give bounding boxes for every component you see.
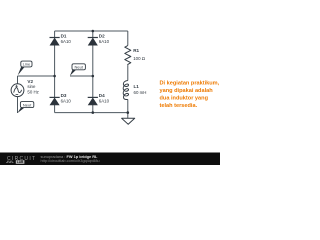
voltage source V2 [11,84,24,97]
wire V2 top lead [17,76,19,84]
node junction Neut x middle rail [92,75,95,78]
wire middle rail Neut junction to D4 cathode [92,76,94,97]
diode D4 [88,97,98,105]
wire left rail stub above D1 [54,31,56,37]
svg-text:6A10: 6A10 [99,39,110,44]
wire R1 to L1 [127,65,129,80]
net flag Line [18,61,32,75]
wire bottom rail [55,112,128,114]
wire L1 to bottom rail [127,100,129,113]
svg-text:Neut: Neut [74,65,83,70]
watermark bar [0,153,220,166]
wire middle rail D2 anode to Neut junction [92,45,94,76]
node junction bottom wire x D4 [92,111,95,114]
svg-text:6A10: 6A10 [99,99,110,104]
diode D3 [50,97,60,105]
ground [122,118,135,124]
svg-text:L1: L1 [134,84,140,89]
svg-text:yang dipakai adalah: yang dipakai adalah [160,88,214,94]
svg-text:dua induktor yang: dua induktor yang [160,96,209,102]
node junction Line x left rail [53,75,56,78]
inductor L1 [123,81,128,100]
svg-text:6A10: 6A10 [61,99,72,104]
wire ground stub [127,113,129,119]
svg-text:V2: V2 [27,79,33,84]
svg-text:D3: D3 [61,93,67,98]
annotation orange note text [160,80,220,109]
svg-text:Di kegiatan praktikum,: Di kegiatan praktikum, [160,80,220,86]
CircuitLab logo LAB box [16,160,25,164]
svg-text:telah tersedia.: telah tersedia. [160,103,198,109]
svg-text:D2: D2 [99,33,105,38]
CircuitLab logo waveform [6,161,14,163]
svg-text:D4: D4 [99,93,105,98]
wire Line horizontal [18,75,55,77]
wire top rail [55,30,128,32]
svg-text:R1: R1 [133,48,139,53]
svg-text:6A10: 6A10 [61,39,72,44]
svg-text:100 Ω: 100 Ω [133,56,146,61]
wire middle rail stub above D2 [92,31,94,38]
wire V2 bottom lead [17,97,19,113]
node junction bottom wire x ground [127,111,130,114]
wire left rail D1 anode to Line junction [54,45,56,76]
node junction top wire x D2 [92,30,95,33]
svg-text:Line: Line [23,62,31,67]
svg-text:60 mH: 60 mH [134,90,147,95]
wire left rail Line junction to D3 cathode [54,76,56,97]
svg-text:LAB: LAB [17,160,24,164]
svg-text:Neut: Neut [23,102,32,107]
svg-text:http://circuitlab.com/c/h3gq4q: http://circuitlab.com/c/h3gq4qv88u [41,158,100,163]
net flag Neut at source [17,102,33,114]
svg-text:sine: sine [27,84,36,89]
svg-text:D1: D1 [61,33,67,38]
net flag Neut at bridge [70,64,86,76]
diode D2 [88,38,98,46]
resistor R1 [125,46,131,66]
wire middle rail D4 anode to bottom rail [92,105,94,113]
svg-text:50 Hz: 50 Hz [27,89,38,94]
wire Neut horizontal [70,75,93,77]
wire right rail top to R1 [127,31,129,46]
diode D1 [50,38,60,46]
wire left rail D3 anode to bottom rail [54,105,56,113]
